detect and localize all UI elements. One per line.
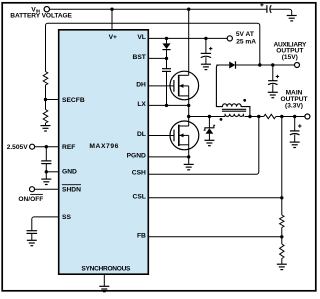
junction Schottky tap [208, 115, 211, 118]
wire between divider resistors [45, 85, 47, 110]
capacitor SS soft-start [27, 231, 38, 241]
svg-text:25 mA: 25 mA [236, 39, 256, 46]
resistor FB divider lower [280, 244, 284, 259]
junction VL cap tap [204, 37, 207, 40]
capacitor main output [290, 117, 302, 143]
junction CSL tap [280, 115, 283, 118]
svg-text:(3.3V): (3.3V) [285, 103, 303, 110]
node T1 secondary polarity dot [243, 99, 246, 102]
capacitor VL bypass [201, 38, 213, 64]
junction GND pin joins REF cap [45, 170, 48, 173]
junction SECFB feedback on aux line [258, 63, 261, 66]
op-amp U1 MAX796 controller IC body [59, 30, 149, 274]
ground input cap [287, 16, 297, 21]
junction aux cap tap [271, 63, 274, 66]
svg-text:SS: SS [62, 214, 71, 221]
ground REF cap [41, 179, 51, 184]
junction Q2 source on PGND [187, 155, 190, 158]
node SHDN ON/OFF terminal [30, 187, 35, 192]
capacitor aux output [268, 65, 279, 92]
junction REF cap tap [45, 145, 48, 148]
wire PGND pin line [148, 156, 188, 158]
resistor current sense [264, 114, 276, 118]
svg-text:FB: FB [137, 232, 146, 239]
wire FB node column [281, 228, 283, 245]
wire BST pin line [148, 57, 166, 59]
junction LX node to inductor line [187, 115, 190, 118]
svg-text:REF: REF [62, 144, 75, 151]
wire aux line to 15V terminal [236, 64, 295, 66]
wire GND pin stub [46, 171, 58, 173]
junction CSH tap [257, 115, 260, 118]
svg-text:2.505V: 2.505V [7, 144, 29, 151]
wire LX pin line [148, 104, 188, 106]
node T1 primary polarity dot [220, 118, 223, 121]
svg-text:SHDN: SHDN [62, 187, 81, 194]
inductor T1 secondary winding [216, 65, 249, 117]
svg-text:ON/OFF: ON/OFF [18, 196, 43, 203]
wire main line to sense resistor [245, 116, 264, 118]
svg-text:DH: DH [136, 81, 146, 88]
wire main line to 3.3V terminal [276, 116, 305, 118]
transistor Q2 synchronous rectifier N-FET [170, 117, 199, 165]
wire SHDN overline [62, 184, 81, 186]
svg-text:CSH: CSH [132, 170, 146, 177]
capacitor BST bootstrap cap [162, 58, 171, 105]
svg-text:BST: BST [133, 54, 147, 61]
svg-text:V+: V+ [109, 34, 117, 41]
resistor FB divider upper [280, 215, 284, 228]
svg-text:BATTERY VOLTAGE: BATTERY VOLTAGE [10, 13, 72, 20]
wire FB pin line [148, 236, 281, 238]
resistor SECFB divider lower [43, 110, 48, 123]
junction Q1 source on LX [187, 104, 190, 107]
svg-text:SYNCHRONOUS: SYNCHRONOUS [81, 266, 131, 273]
capacitor input bulk cap [260, 3, 291, 15]
wire T1 core [222, 109, 246, 111]
node AUXILIARY OUTPUT 15V terminal [295, 63, 300, 68]
transistor Q1 high-side N-FET [170, 71, 199, 116]
wire CSL column upper [281, 117, 283, 216]
node VIN battery voltage terminal [44, 7, 49, 12]
wire CSH pin line [148, 117, 259, 175]
junction V+ tap on VIN rail [110, 8, 113, 11]
node 5V AT 25mA terminal [227, 36, 232, 41]
wire SECFB pin stub [46, 99, 59, 101]
wire SECFB feedback line from divider to 15V node [46, 23, 260, 71]
wire aux line from secondary to diode [216, 64, 229, 66]
svg-text:(15V): (15V) [282, 54, 298, 61]
svg-text:CSL: CSL [133, 193, 146, 200]
junction secondary return on main line [248, 115, 251, 118]
svg-text:GND: GND [62, 169, 77, 176]
junction FB node [280, 235, 283, 238]
junction output cap tap [293, 115, 296, 118]
svg-text:PGND: PGND [127, 152, 146, 159]
ground PGND [184, 164, 194, 169]
capacitor REF bypass [41, 147, 51, 179]
junction CSL node [280, 196, 283, 199]
svg-text:DL: DL [137, 131, 146, 138]
wire SS pin line [32, 217, 59, 231]
wire DL pin line [148, 135, 174, 137]
diode D2 Schottky freewheel [204, 117, 215, 141]
ground SECFB divider [41, 126, 51, 131]
wire DH pin line [148, 85, 174, 87]
junction BST node [165, 57, 168, 60]
wire CSL pin line [148, 197, 281, 199]
wire main switching line to inductor [189, 116, 225, 118]
wire VL pin line to 5V terminal [148, 37, 227, 39]
wire IC ground stub [103, 274, 105, 286]
svg-text:VL: VL [137, 34, 146, 41]
diode D1 aux rectifier [229, 61, 235, 68]
svg-text:5V AT: 5V AT [236, 31, 254, 38]
junction SECFB tap [44, 98, 47, 101]
node REF 2.505V terminal [30, 144, 35, 149]
wire V+ drop to IC [111, 9, 113, 30]
junction BST cap on LX [165, 104, 168, 107]
node MAIN OUTPUT 3.3V terminal [305, 114, 310, 119]
junction BST diode tap on VL [165, 37, 168, 40]
ground FB divider [277, 264, 287, 269]
resistor SECFB divider upper [43, 72, 48, 85]
ground IC bottom [99, 286, 109, 291]
ground SS cap [27, 240, 37, 245]
svg-text:SECFB: SECFB [62, 97, 85, 104]
svg-text:MAX796: MAX796 [89, 143, 119, 150]
ground VL cap [201, 64, 211, 69]
wire REF pin line [35, 146, 59, 148]
wire SHDN pin line [35, 188, 59, 190]
wire divider to ground [45, 123, 47, 126]
ground main output cap [290, 142, 300, 147]
wire Q1 drain drop [188, 9, 190, 75]
junction Q1 drain tap on VIN rail [187, 8, 190, 11]
svg-text:LX: LX [137, 101, 146, 108]
inductor T1 primary winding [225, 114, 243, 117]
wire FB divider to ground [281, 259, 283, 265]
wire ON/OFF overline [30, 193, 43, 195]
wire VIN rail top [50, 8, 267, 10]
ground aux cap [268, 92, 278, 97]
ground Schottky [204, 140, 214, 145]
diode BST bootstrap [162, 38, 170, 58]
